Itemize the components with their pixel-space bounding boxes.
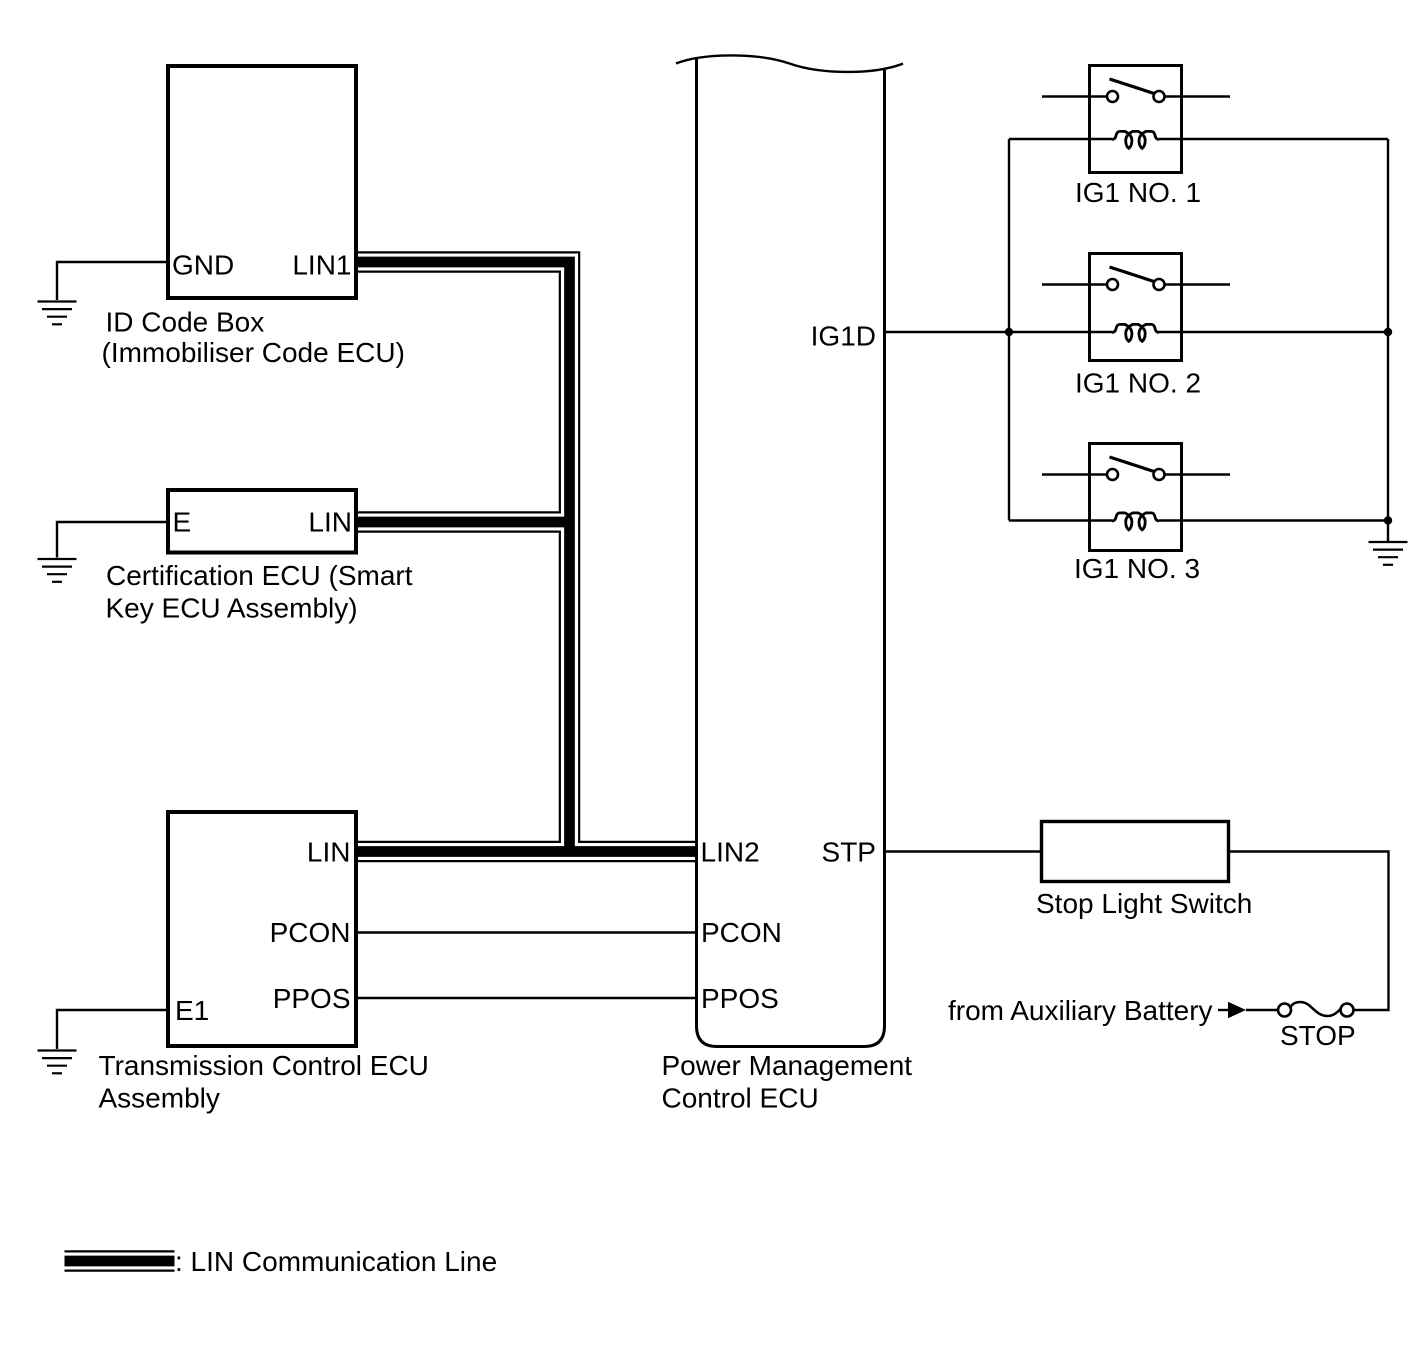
svg-text:IG1 NO. 2: IG1 NO. 2 [1075,368,1201,399]
wire relay 2 coil line [1159,331,1388,333]
svg-text:STP: STP [822,837,876,868]
svg-text:: LIN Communication Line: : LIN Communication Line [175,1246,497,1277]
relay coil bus left vertical [1008,139,1010,521]
svg-text:Control ECU: Control ECU [662,1083,819,1114]
pin label GND [172,250,234,281]
svg-text:E: E [173,507,192,538]
ground (Transmission Control ECU) [38,1051,77,1074]
arrow head [1228,1002,1246,1018]
pin label LIN1 [292,250,351,281]
pin label E [173,507,192,538]
svg-text:LIN: LIN [308,507,352,538]
wire PPOS [356,997,697,999]
label STOP [1280,1020,1356,1051]
svg-text:STOP: STOP [1280,1020,1356,1051]
LIN communication bus (white separation pass) [356,262,697,852]
svg-text:IG1 NO. 3: IG1 NO. 3 [1074,553,1200,584]
svg-text:from Auxiliary Battery: from Auxiliary Battery [948,995,1213,1026]
Certification ECU box [168,490,356,553]
label Transmission Control ECU Assembly [99,1050,429,1114]
svg-text:PPOS: PPOS [273,983,351,1014]
svg-text:LIN1: LIN1 [292,250,351,281]
pin label STP [822,837,876,868]
relay IG1 NO. 2 [1042,254,1230,361]
pin label LIN2 [701,837,760,868]
STOP switch contact right [1341,1004,1354,1017]
wire stop light switch to STOP contact [1229,852,1389,1011]
Transmission Control ECU box [168,812,356,1046]
relay IG1 NO. 1 [1042,66,1230,173]
label Certification ECU [106,560,413,624]
Stop Light Switch box [1042,822,1229,882]
Power Management Control ECU outline [697,57,885,1047]
junction dot right bus / relay3 coil [1384,516,1392,524]
wire IG1D to relay 2 coil [884,331,1112,333]
svg-text:PCON: PCON [270,917,351,948]
label IG1 NO. 2 [1075,368,1201,399]
svg-text:Stop Light Switch: Stop Light Switch [1036,888,1252,919]
pin label PPOS (transmission) [273,983,351,1014]
svg-text:IG1D: IG1D [811,321,876,352]
svg-text:Transmission Control ECU: Transmission Control ECU [99,1050,429,1081]
legend text [175,1246,497,1277]
wire relay 1 coil line [1009,138,1388,140]
svg-text:PPOS: PPOS [701,983,779,1014]
LIN communication bus (thick core pass) [356,262,697,852]
wire arrow to STOP contact [1246,1009,1278,1011]
svg-text:GND: GND [172,250,234,281]
label from Auxiliary Battery [948,995,1213,1026]
junction dot right bus / IG1D [1384,328,1392,336]
junction dot left bus / IG1D [1005,328,1013,336]
wire E to ground [57,522,166,558]
ground (Certification ECU) [38,559,77,582]
label IG1 NO. 3 [1074,553,1200,584]
label IG1 NO. 1 [1075,177,1201,208]
pin label LIN (transmission) [307,837,351,868]
legend LIN communication line sample [65,1250,175,1272]
wire E1 to ground [57,1010,166,1049]
svg-text:Key ECU Assembly): Key ECU Assembly) [106,593,358,624]
LIN communication bus (thick outer pass) [356,262,697,852]
pin label PCON (power management) [701,917,782,948]
pin label PCON (transmission) [270,917,351,948]
pin label LIN (certification) [308,507,352,538]
Power Management Control ECU torn top wave [676,55,903,72]
label ID Code Box [102,307,405,369]
svg-text:Power Management: Power Management [662,1050,913,1081]
svg-text:Certification ECU (Smart: Certification ECU (Smart [106,560,413,591]
ground (relay bus) [1369,542,1408,565]
pin label IG1D [811,321,876,352]
label Power Management Control ECU [662,1050,913,1114]
STOP switch wavy blade [1291,1002,1341,1016]
svg-text:LIN2: LIN2 [701,837,760,868]
wire relay 3 coil line [1009,519,1388,521]
pin label E1 [175,995,209,1026]
svg-text:LIN: LIN [307,837,351,868]
wire GND to ground [57,262,166,300]
relay bus right vertical [1387,139,1389,542]
ID Code Box (Immobiliser Code ECU) [168,66,356,298]
ground (ID Code Box) [38,302,77,325]
svg-text:Assembly: Assembly [99,1083,220,1114]
wire PCON [356,931,697,933]
svg-text:ID Code Box: ID Code Box [106,307,265,338]
pin label PPOS (power management) [701,983,779,1014]
STOP switch contact left [1278,1004,1291,1017]
svg-text:IG1 NO. 1: IG1 NO. 1 [1075,177,1201,208]
svg-text:E1: E1 [175,995,209,1026]
svg-text:(Immobiliser Code ECU): (Immobiliser Code ECU) [102,337,405,368]
label Stop Light Switch [1036,888,1252,919]
wire from auxiliary battery arrow [1218,1009,1229,1011]
wire STP to stop light switch [884,850,1041,852]
relay IG1 NO. 3 [1042,444,1230,551]
svg-text:PCON: PCON [701,917,782,948]
